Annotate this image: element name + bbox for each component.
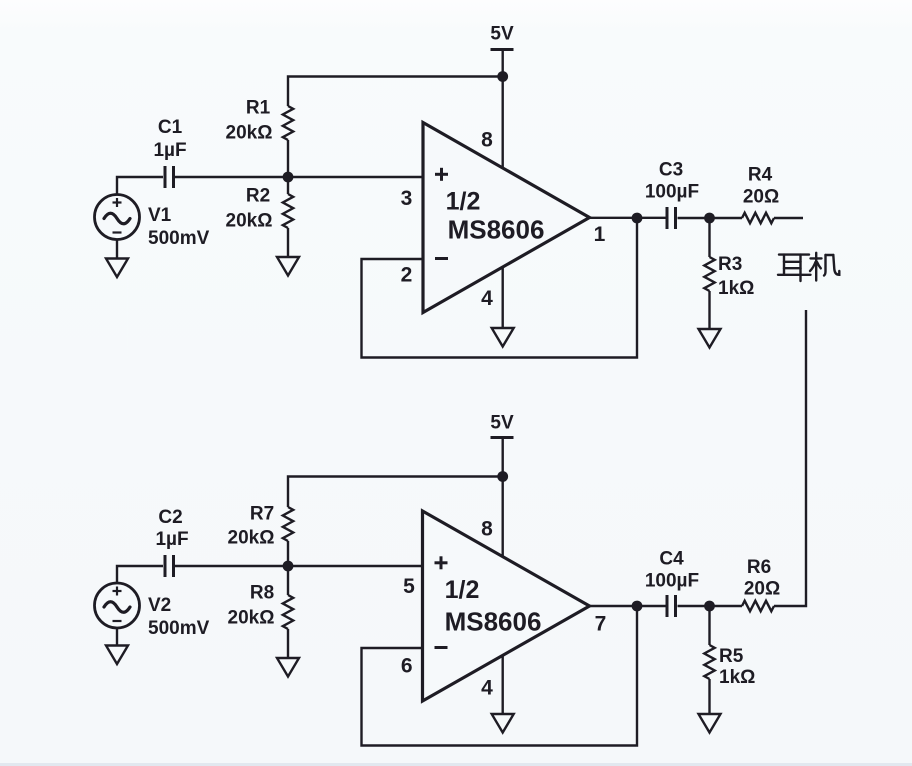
voltage source V2 (95, 583, 140, 628)
node C (output junction) (632, 213, 643, 224)
node G (output junction) (632, 601, 643, 612)
ground (pin 4, ch1) (492, 267, 514, 347)
wire V2 to C2 (117, 566, 163, 583)
svg-text:3: 3 (401, 187, 413, 210)
label R4 20Ω (743, 165, 779, 208)
label R7 20kΩ (228, 504, 275, 549)
svg-text:R5: R5 (719, 646, 744, 667)
svg-text:500mV: 500mV (148, 228, 210, 249)
pin 8 label (481, 129, 493, 152)
wire R1 top to 5V node (288, 77, 503, 107)
resistor R7 (283, 507, 293, 566)
svg-text:R6: R6 (747, 557, 771, 578)
svg-text:1: 1 (594, 223, 606, 246)
wire V1 to C1 (117, 177, 163, 195)
svg-text:100µF: 100µF (645, 182, 699, 203)
svg-text:20Ω: 20Ω (743, 187, 779, 208)
ground (R2) (277, 257, 299, 276)
node B (supply junction) (497, 71, 508, 82)
wire R6 to headphone bus (774, 310, 806, 606)
label R6 20Ω (744, 557, 780, 600)
svg-text:2: 2 (401, 264, 413, 287)
ground (V1) (106, 240, 128, 278)
pin 8 label (ch2) (481, 518, 493, 541)
node H (junction) (704, 601, 715, 612)
resistor R3 (704, 218, 714, 329)
power 5V supply (ch2) (491, 438, 514, 477)
svg-text:100µF: 100µF (645, 571, 699, 592)
resistor R4 (742, 213, 774, 223)
label C1 1µF (153, 117, 186, 161)
wire 5V node to pin 8 (502, 77, 504, 169)
svg-text:1µF: 1µF (153, 140, 186, 161)
pin 4 label (ch2) (481, 677, 493, 700)
wire R7 top to 5V node (288, 477, 503, 508)
svg-text:1µF: 1µF (155, 529, 188, 550)
svg-text:C1: C1 (158, 117, 183, 138)
label R5 1kΩ (719, 646, 755, 688)
svg-text:V2: V2 (148, 595, 171, 616)
svg-text:V1: V1 (148, 205, 172, 226)
pin 3 label (401, 187, 413, 210)
svg-text:1kΩ: 1kΩ (718, 278, 754, 299)
svg-text:8: 8 (481, 518, 493, 541)
pin 5 label (403, 575, 415, 598)
label R1 20kΩ (226, 98, 273, 144)
wire feedback pin 6 loop (362, 607, 638, 746)
label C4 100µF (645, 549, 699, 592)
op-amp U1A (1/2 MS8606) (423, 123, 590, 313)
svg-text:R1: R1 (246, 98, 271, 119)
pin 7 label (595, 613, 607, 636)
node E (input junction) (283, 561, 294, 572)
svg-text:8: 8 (481, 129, 493, 152)
capacitor C2 (165, 555, 174, 577)
svg-text:20Ω: 20Ω (744, 579, 780, 600)
wire C3 to R4 (678, 217, 743, 219)
svg-text:C2: C2 (158, 507, 182, 528)
power 5V supply (ch1) (491, 50, 514, 77)
label R8 20kΩ (228, 583, 275, 629)
node F (supply junction) (497, 471, 508, 482)
label 5V (ch1) (490, 24, 514, 45)
wire feedback pin 2 loop (362, 218, 638, 358)
capacitor C3 (667, 207, 676, 229)
wire output pin 1 (590, 217, 666, 219)
pin 4 label (481, 287, 493, 310)
resistor R8 (283, 566, 293, 658)
svg-text:R7: R7 (250, 504, 274, 525)
svg-text:MS8606: MS8606 (445, 607, 542, 637)
svg-text:R2: R2 (246, 186, 270, 207)
node D (junction) (704, 213, 715, 224)
node A (input junction) (283, 172, 294, 183)
wire C1 to op-amp +input (node A) (175, 176, 423, 178)
wire 5V node to pin 8 (ch2) (502, 477, 504, 558)
ground (R5) (699, 714, 721, 733)
svg-text:R3: R3 (718, 254, 742, 275)
label R2 20kΩ (226, 186, 273, 232)
svg-text:1/2: 1/2 (445, 576, 480, 604)
svg-text:5V: 5V (490, 413, 514, 434)
svg-text:7: 7 (595, 613, 607, 636)
label C3 100µF (645, 160, 699, 203)
svg-text:4: 4 (481, 677, 493, 700)
resistor R6 (742, 601, 774, 611)
label V2 500mV (148, 595, 210, 639)
ground (R3) (699, 329, 721, 348)
label C2 1µF (155, 507, 188, 550)
resistor R1 (283, 106, 293, 177)
ground (pin 4, ch2) (492, 656, 514, 733)
svg-text:20kΩ: 20kΩ (226, 123, 273, 144)
ground (V2) (106, 628, 128, 664)
svg-text:5V: 5V (490, 24, 514, 45)
label R3 1kΩ (718, 254, 754, 299)
svg-text:5: 5 (403, 575, 415, 598)
svg-text:R4: R4 (748, 165, 773, 186)
wire C2 to op-amp +input (node E) (175, 565, 423, 567)
svg-text:1/2: 1/2 (446, 188, 481, 216)
resistor R5 (704, 606, 714, 714)
op-amp U1B (1/2 MS8606) (423, 511, 590, 701)
capacitor C1 (165, 166, 174, 188)
label 耳机 (headphone) (778, 253, 839, 281)
svg-text:C4: C4 (659, 549, 684, 570)
svg-text:1kΩ: 1kΩ (719, 667, 755, 688)
svg-text:20kΩ: 20kΩ (228, 608, 275, 629)
svg-text:MS8606: MS8606 (448, 215, 545, 245)
svg-text:R8: R8 (250, 583, 274, 604)
svg-text:500mV: 500mV (148, 618, 210, 639)
label 5V (ch2) (490, 413, 514, 434)
wire C4 to R6 (678, 605, 743, 607)
ground (R8) (277, 658, 299, 677)
resistor R2 (283, 177, 293, 257)
svg-text:C3: C3 (659, 160, 683, 181)
wire R4 to headphone (774, 217, 803, 219)
voltage source V1 (95, 195, 140, 240)
svg-text:20kΩ: 20kΩ (226, 211, 273, 232)
pin 1 label (594, 223, 606, 246)
wire output pin 7 (590, 605, 666, 607)
svg-text:6: 6 (401, 655, 413, 678)
capacitor C4 (667, 595, 676, 617)
svg-text:20kΩ: 20kΩ (228, 528, 275, 549)
label V1 500mV (148, 205, 210, 249)
pin 6 label (401, 655, 413, 678)
svg-text:4: 4 (481, 287, 493, 310)
pin 2 label (401, 264, 413, 287)
